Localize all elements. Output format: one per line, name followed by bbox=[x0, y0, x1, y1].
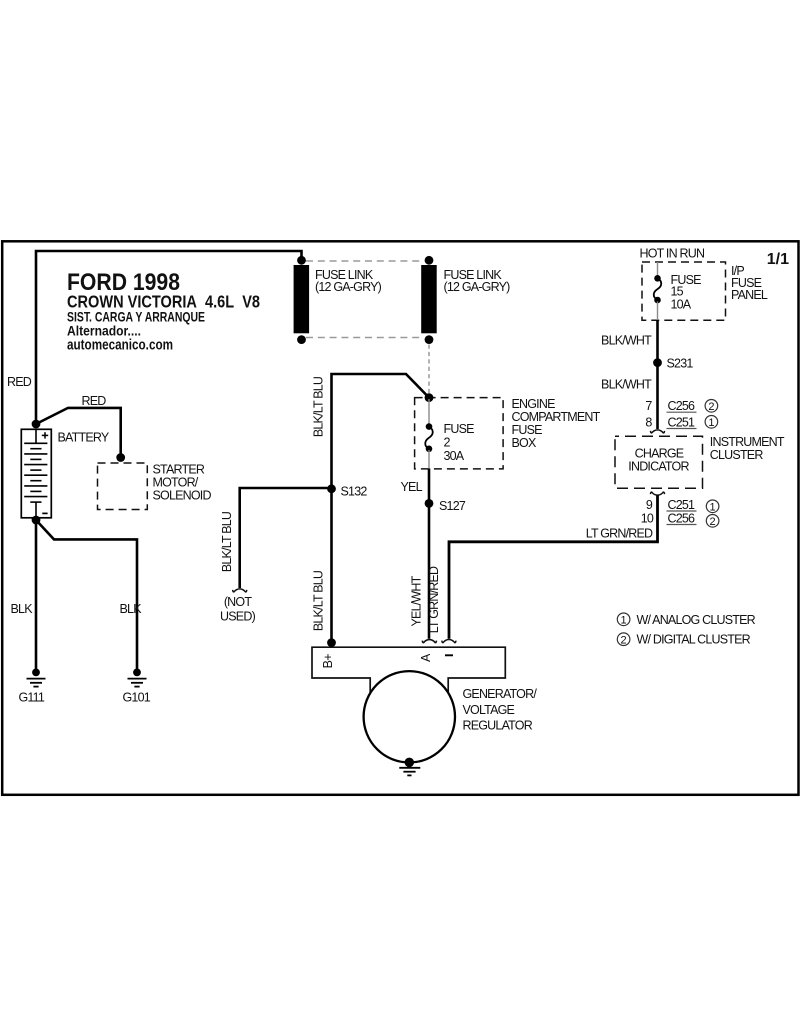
svg-text:YEL: YEL bbox=[401, 480, 423, 494]
svg-text:BOX: BOX bbox=[512, 436, 537, 450]
svg-text:CLUSTER: CLUSTER bbox=[710, 448, 764, 462]
note circle 2 bbox=[706, 515, 719, 528]
svg-text:15: 15 bbox=[671, 285, 684, 299]
svg-text:GENERATOR/: GENERATOR/ bbox=[463, 687, 538, 701]
svg-text:30A: 30A bbox=[444, 449, 465, 463]
svg-text:HOT IN RUN: HOT IN RUN bbox=[640, 247, 705, 261]
wire battery- to ground G111 bbox=[35, 520, 38, 669]
svg-text:INSTRUMENT: INSTRUMENT bbox=[710, 435, 785, 449]
pin 8 connector C251 bbox=[645, 415, 696, 429]
svg-text:G101: G101 bbox=[123, 691, 151, 705]
fuse F2 30A element bbox=[425, 399, 433, 469]
wire S132 to not-used stub bbox=[240, 488, 332, 588]
connector arc minus terminal bbox=[442, 640, 456, 643]
svg-text:USED): USED) bbox=[220, 610, 256, 624]
svg-text:10: 10 bbox=[641, 511, 654, 525]
svg-text:BLK/LT BLU: BLK/LT BLU bbox=[220, 511, 234, 572]
label ENGINE COMPARTMENT FUSE BOX bbox=[512, 397, 601, 450]
splice S231 bbox=[653, 358, 662, 367]
junction battery negative bbox=[32, 516, 41, 525]
junction starter feed bbox=[116, 453, 125, 462]
fuse link box dashed outline bbox=[306, 261, 424, 338]
connector arc not used bbox=[233, 589, 247, 592]
ground G111 bbox=[27, 669, 46, 687]
wire fuse panel to instrument cluster (BLK/WHT) bbox=[656, 320, 659, 429]
note circle 1 bbox=[706, 500, 719, 513]
junction battery positive bbox=[32, 420, 41, 429]
svg-text:2: 2 bbox=[621, 634, 627, 646]
dashed wire fuse link FL2 to fuse box bbox=[428, 345, 430, 397]
label I/P FUSE PANEL bbox=[731, 264, 768, 302]
label FUSE LINK (12 GA-GRY) FL1 bbox=[315, 268, 382, 294]
wire fuse box to S132 branch (BLK/LT BLU) bbox=[332, 374, 430, 643]
svg-text:CHARGE: CHARGE bbox=[635, 447, 684, 461]
svg-text:G111: G111 bbox=[19, 691, 45, 705]
svg-text:BLK: BLK bbox=[11, 602, 34, 616]
note circle 1 (w/ analog cluster) bbox=[705, 416, 718, 429]
svg-text:(NOT: (NOT bbox=[224, 595, 253, 609]
svg-text:2: 2 bbox=[708, 401, 714, 413]
label minus terminal bbox=[445, 654, 453, 656]
svg-text:INDICATOR: INDICATOR bbox=[628, 460, 689, 474]
svg-text:C251: C251 bbox=[668, 415, 696, 429]
wire fuse box to generator A terminal (YEL / YEL/WHT) bbox=[428, 469, 431, 639]
wire battery+ to starter solenoid bbox=[36, 408, 121, 457]
svg-text:(12 GA-GRY): (12 GA-GRY) bbox=[444, 280, 511, 294]
svg-text:COMPARTMENT: COMPARTMENT bbox=[512, 410, 601, 424]
junction at fuse box entry bbox=[425, 393, 434, 402]
label FUSE 15 10A bbox=[671, 273, 702, 312]
svg-text:1/1: 1/1 bbox=[767, 251, 789, 268]
starter motor/solenoid box bbox=[98, 463, 148, 510]
svg-text:2: 2 bbox=[444, 436, 451, 450]
legend note 2 bbox=[617, 633, 750, 647]
label GENERATOR/VOLTAGE REGULATOR bbox=[463, 687, 538, 733]
label CHARGE INDICATOR bbox=[628, 447, 689, 474]
svg-text:W/ ANALOG CLUSTER: W/ ANALOG CLUSTER bbox=[637, 613, 756, 627]
svg-text:YEL/WHT: YEL/WHT bbox=[410, 575, 424, 626]
battery BAT1 bbox=[21, 429, 51, 518]
svg-text:MOTOR/: MOTOR/ bbox=[153, 476, 199, 490]
svg-text:ENGINE: ENGINE bbox=[512, 397, 556, 411]
engine compartment fuse box bbox=[415, 398, 504, 469]
pin 7 connector C256 bbox=[645, 399, 696, 413]
note circle 2 (w/ digital cluster) bbox=[705, 400, 718, 413]
svg-text:LT GRN/RED: LT GRN/RED bbox=[427, 566, 441, 633]
label STARTER MOTOR/SOLENOID bbox=[153, 463, 212, 503]
svg-text:BLK/LT BLU: BLK/LT BLU bbox=[312, 376, 326, 437]
svg-text:FUSE: FUSE bbox=[444, 422, 475, 436]
svg-text:1: 1 bbox=[708, 417, 714, 429]
ground G101 bbox=[128, 669, 147, 687]
label INSTRUMENT CLUSTER bbox=[710, 435, 785, 462]
svg-text:Alternador....: Alternador.... bbox=[67, 322, 141, 338]
fuse link FL1 bbox=[294, 256, 310, 344]
svg-text:BLK: BLK bbox=[120, 602, 143, 616]
splice S132 bbox=[327, 484, 336, 493]
I/P fuse panel box bbox=[642, 262, 726, 320]
svg-text:1: 1 bbox=[710, 501, 716, 513]
pin 10 connector C256 bbox=[641, 511, 697, 525]
ground at generator bbox=[399, 758, 420, 776]
svg-text:BLK/WHT: BLK/WHT bbox=[601, 377, 652, 391]
label FUSE 2 30A bbox=[444, 422, 475, 463]
svg-text:9: 9 bbox=[646, 498, 653, 512]
svg-text:STARTER: STARTER bbox=[153, 463, 205, 477]
svg-text:BLK/WHT: BLK/WHT bbox=[601, 333, 652, 347]
wire battery- to ground G101 bbox=[36, 520, 137, 669]
title block bbox=[67, 269, 260, 354]
pin 9 connector C251 bbox=[646, 498, 697, 512]
svg-text:RED: RED bbox=[82, 394, 107, 408]
svg-text:PANEL: PANEL bbox=[731, 288, 768, 302]
svg-text:8: 8 bbox=[645, 415, 652, 429]
svg-text:S132: S132 bbox=[341, 485, 368, 499]
svg-text:2: 2 bbox=[710, 516, 716, 528]
wire cluster to generator minus (LT GRN/RED) bbox=[449, 495, 658, 638]
svg-text:1: 1 bbox=[621, 614, 627, 626]
svg-text:C251: C251 bbox=[668, 498, 696, 512]
charge indicator box bbox=[615, 436, 703, 488]
svg-text:7: 7 bbox=[645, 399, 652, 413]
svg-text:(12 GA-GRY): (12 GA-GRY) bbox=[315, 280, 382, 294]
svg-text:VOLTAGE: VOLTAGE bbox=[463, 703, 515, 717]
svg-text:FUSE: FUSE bbox=[512, 423, 543, 437]
svg-text:C256: C256 bbox=[668, 399, 696, 413]
svg-text:BATTERY: BATTERY bbox=[58, 431, 110, 445]
junction B+ terminal bbox=[327, 638, 336, 647]
fuse F15 10A element bbox=[654, 262, 662, 320]
connector arc into cluster bbox=[651, 430, 665, 433]
label FUSE LINK (12 GA-GRY) FL2 bbox=[444, 268, 511, 294]
svg-text:B+: B+ bbox=[321, 654, 335, 669]
splice S127 bbox=[425, 499, 434, 508]
generator / voltage regulator body bbox=[312, 647, 505, 762]
svg-text:C256: C256 bbox=[668, 511, 696, 525]
label (NOT USED) bbox=[220, 595, 256, 624]
svg-text:W/ DIGITAL CLUSTER: W/ DIGITAL CLUSTER bbox=[637, 633, 751, 647]
svg-text:S231: S231 bbox=[667, 356, 694, 370]
svg-text:LT GRN/RED: LT GRN/RED bbox=[586, 526, 653, 540]
svg-text:10A: 10A bbox=[671, 298, 692, 312]
svg-text:REGULATOR: REGULATOR bbox=[463, 719, 533, 733]
svg-text:S127: S127 bbox=[439, 499, 466, 513]
svg-text:BLK/LT BLU: BLK/LT BLU bbox=[312, 570, 326, 631]
fuse link FL2 bbox=[421, 256, 437, 344]
legend note 1 bbox=[617, 613, 755, 627]
svg-text:automecanico.com: automecanico.com bbox=[67, 338, 173, 354]
connector arc out of cluster bbox=[651, 492, 665, 495]
svg-text:RED: RED bbox=[7, 375, 32, 389]
connector arc A terminal bbox=[422, 640, 436, 643]
svg-text:SOLENOID: SOLENOID bbox=[153, 489, 212, 503]
wire battery+ to fuse link F1 bbox=[36, 251, 302, 424]
